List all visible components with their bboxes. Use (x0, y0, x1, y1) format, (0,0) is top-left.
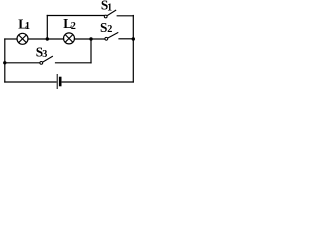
svg-text:1: 1 (25, 21, 30, 32)
node B junction dot (89, 37, 92, 40)
svg-text:2: 2 (71, 21, 76, 32)
wire: S3 branch right segment (56, 62, 92, 64)
wire: bottom left to battery (5, 81, 56, 83)
wire: L2 to node B (74, 38, 91, 40)
switch S2 arm (108, 33, 118, 38)
battery B1 long plate (56, 75, 58, 89)
wire: riser node A up (46, 16, 48, 40)
node A junction dot (46, 37, 49, 40)
wire: right vertical (132, 16, 134, 83)
node C junction dot (right vertical) (132, 37, 135, 40)
svg-text:2: 2 (107, 24, 112, 35)
wire: S3 branch left segment (5, 62, 40, 64)
node D junction dot (left vertical) (3, 61, 6, 64)
wire: top branch right segment (117, 15, 133, 17)
svg-text:3: 3 (42, 49, 47, 60)
svg-text:1: 1 (107, 3, 112, 14)
wire: node B to S2 (91, 38, 105, 40)
wire: node A to L2 (47, 38, 63, 40)
switch S1 pivot (104, 15, 107, 18)
wire: L1 to node A (28, 38, 47, 40)
switch S1 arm (107, 10, 116, 15)
wire: S2 to right vertical (119, 38, 133, 40)
wire: left vertical (4, 39, 6, 82)
lamp L1 (17, 33, 28, 44)
switch S3 pivot (40, 62, 43, 65)
lamp L2 (64, 33, 75, 44)
wire: top branch left segment (47, 15, 104, 17)
switch S3 arm (43, 56, 53, 62)
svg-text:S: S (100, 20, 107, 35)
wire: battery to bottom right (62, 81, 133, 83)
wire: node B drop (90, 39, 92, 63)
wire: main line left to L1 (5, 38, 17, 40)
switch S2 pivot (105, 37, 108, 40)
battery B1 short thick plate (59, 78, 62, 85)
